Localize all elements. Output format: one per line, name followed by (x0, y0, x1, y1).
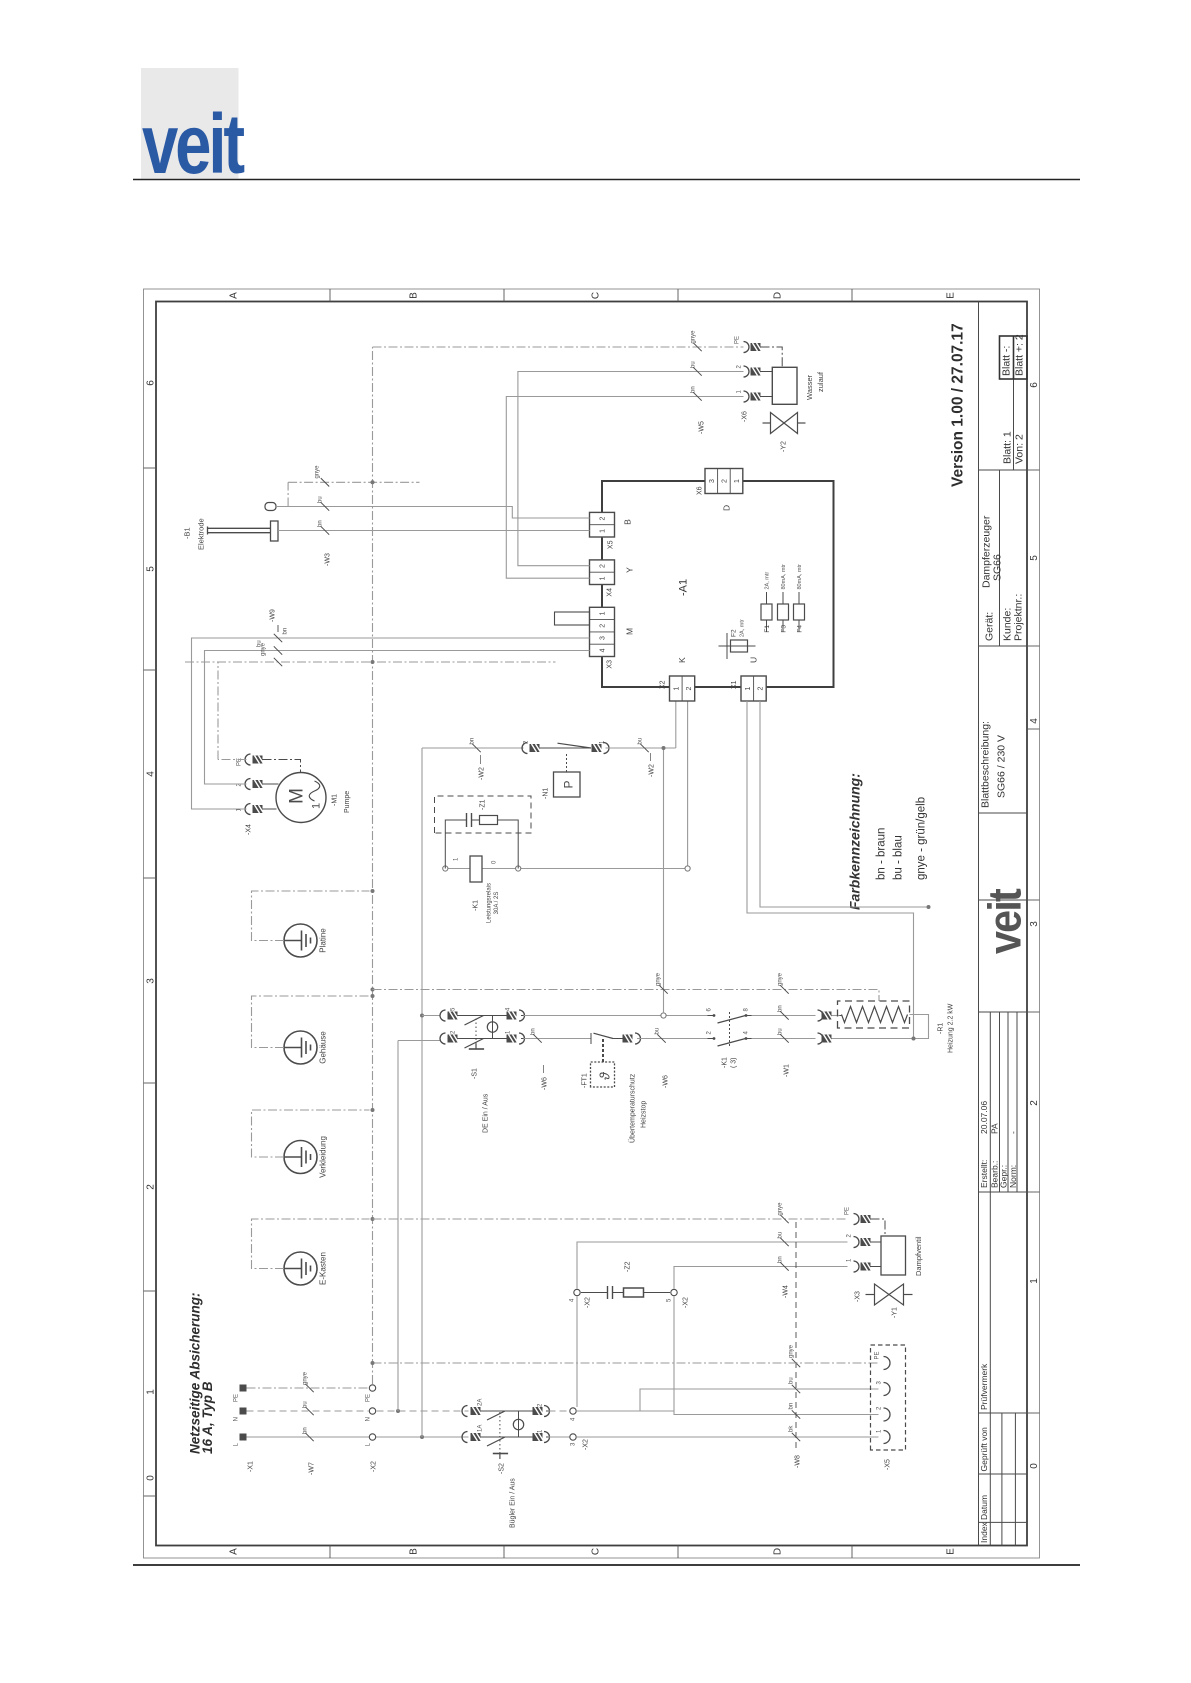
svg-text:1: 1 (146, 1389, 157, 1395)
svg-text:1: 1 (1029, 1278, 1040, 1284)
svg-text:1: 1 (734, 479, 741, 483)
socket X5 (871, 1345, 906, 1450)
svg-text:PE: PE (234, 1394, 240, 1402)
svg-text:bn: bn (303, 1427, 309, 1434)
svg-text:gnye: gnye (315, 465, 321, 479)
wires to A1 connectors X2 X1 (675, 701, 677, 748)
wire N branch to Z2 (576, 1297, 578, 1408)
wire L down to socket X5 pin1 (577, 1436, 879, 1438)
svg-text:30A / 2S: 30A / 2S (494, 892, 500, 915)
svg-text:2: 2 (600, 624, 607, 628)
svg-text:4: 4 (1029, 718, 1040, 724)
svg-text:6: 6 (146, 380, 157, 386)
svg-text:-K1: -K1 (722, 1057, 729, 1068)
svg-text:Dampfventil: Dampfventil (914, 1236, 923, 1276)
svg-text:2: 2 (600, 564, 607, 568)
cable W8 line and marks (795, 1219, 797, 1448)
svg-text:Blatt +: 2: Blatt +: 2 (1014, 334, 1026, 376)
veit company logo (141, 68, 244, 191)
svg-text:bn: bn (531, 1028, 537, 1035)
earth symbols E-Kasten Verkleidung Gehaeuse Platine (284, 1252, 317, 1285)
svg-text:D: D (722, 505, 732, 511)
svg-text:2: 2 (686, 686, 693, 690)
cable W6 mark (524, 1038, 592, 1040)
svg-text:bk: bk (789, 1425, 795, 1432)
svg-text:PE: PE (875, 1351, 881, 1359)
svg-text:Y: Y (625, 567, 635, 573)
svg-text:Version 1.00 / 27.07.17: Version 1.00 / 27.07.17 (950, 323, 967, 487)
electrode small probe (265, 503, 276, 511)
branch L to heater line (420, 1435, 424, 1439)
svg-text:U: U (749, 657, 759, 663)
switch S1 DE Ein/Aus (440, 1033, 446, 1044)
svg-text:E: E (946, 1548, 957, 1555)
switch S2 Buegler Ein/Aus (462, 1432, 468, 1443)
svg-text:1: 1 (600, 611, 607, 615)
svg-text:zulauf: zulauf (816, 371, 825, 392)
svg-text:X3: X3 (607, 660, 614, 669)
cable W5 marks (693, 392, 701, 400)
svg-text:bu - blau: bu - blau (893, 835, 905, 880)
svg-text:-X2: -X2 (585, 1297, 592, 1308)
svg-text:-W7: -W7 (309, 1462, 316, 1475)
Netzseitige Absicherung heading (188, 1292, 216, 1454)
svg-text:X4: X4 (607, 588, 614, 597)
svg-text:SG66 / 230 V: SG66 / 230 V (996, 735, 1008, 798)
svg-text:-Y2: -Y2 (781, 441, 788, 452)
title block (979, 302, 1028, 1546)
svg-text:bn: bn (778, 1005, 784, 1012)
svg-text:1A: 1A (478, 1425, 484, 1432)
PE rail (372, 347, 374, 1384)
svg-text:-W5: -W5 (699, 421, 706, 434)
connector X4 Y (590, 560, 615, 585)
svg-text:bn: bn (778, 1256, 784, 1263)
svg-text:-B1: -B1 (183, 527, 192, 539)
svg-text:gnye - grün/gelb: gnye - grün/gelb (916, 797, 928, 880)
svg-text:bu: bu (691, 361, 697, 368)
plug X6 water valve (744, 391, 750, 402)
X2 terminal 4b (574, 1289, 580, 1295)
svg-text:Von: 2: Von: 2 (1014, 434, 1026, 464)
wires S2 to X2 terminals 3 4 (549, 1436, 570, 1438)
svg-text:3: 3 (709, 479, 716, 483)
wire Z2 top to valve X3 pin2 (577, 1242, 848, 1289)
svg-text:K: K (677, 657, 687, 663)
cable W7 marks (305, 1433, 313, 1441)
svg-text:Prüfvermerk: Prüfvermerk (979, 1363, 989, 1410)
svg-text:-Z2: -Z2 (625, 1261, 632, 1272)
svg-text:1: 1 (311, 803, 323, 809)
wire N jog to X5 pin3 (577, 1410, 674, 1412)
svg-text:0: 0 (146, 1475, 157, 1481)
svg-text:-X3: -X3 (855, 1291, 862, 1302)
svg-text:-S2: -S2 (499, 1463, 506, 1474)
svg-text:gnye: gnye (303, 1371, 309, 1385)
wires K1 to heater R1 (752, 1015, 816, 1017)
svg-text:Farbkennzeichnung:: Farbkennzeichnung: (847, 773, 863, 910)
PE drop to valve plug X3 (373, 1218, 848, 1220)
svg-text:1: 1 (600, 576, 607, 580)
svg-text:A: A (229, 1548, 240, 1555)
svg-text:-X6: -X6 (742, 411, 749, 422)
svg-text:-X4: -X4 (246, 824, 253, 835)
svg-text:-X2: -X2 (683, 1297, 690, 1308)
svg-text:2: 2 (1029, 1100, 1040, 1106)
svg-text:6: 6 (1029, 382, 1040, 388)
top horizontal rule (133, 179, 1080, 181)
X2 terminal 5 (671, 1289, 677, 1295)
svg-text:Datum: Datum (979, 1495, 989, 1520)
svg-text:2A: 2A (478, 1399, 484, 1406)
svg-text:2A, mtr: 2A, mtr (765, 572, 771, 590)
svg-text:( 3): ( 3) (731, 1058, 738, 1069)
svg-text:gnye: gnye (691, 330, 697, 344)
wires X1 U to heater measuring (747, 701, 914, 1039)
svg-text:F2: F2 (731, 629, 738, 637)
svg-text:B: B (623, 519, 633, 525)
connector X1 U (741, 676, 766, 701)
svg-text:-X2: -X2 (371, 1461, 378, 1472)
svg-text:SG66: SG66 (992, 554, 1004, 581)
svg-text:-X5: -X5 (885, 1459, 892, 1470)
svg-text:4: 4 (146, 771, 157, 777)
drawing frame inner border (156, 302, 1027, 1546)
snubber Z1 (445, 820, 466, 869)
svg-text:-M1: -M1 (332, 794, 339, 806)
svg-text:bu: bu (303, 1401, 309, 1408)
svg-text:2: 2 (721, 479, 728, 483)
mains input wires L N PE (247, 1436, 469, 1438)
svg-text:3: 3 (600, 636, 607, 640)
svg-text:Blattbeschreibung:: Blattbeschreibung: (980, 721, 992, 808)
pump motor M1 (276, 773, 326, 823)
svg-text:-A1: -A1 (678, 579, 690, 596)
heating element R1 (838, 1001, 910, 1028)
svg-text:veit: veit (142, 97, 244, 191)
svg-text:2A, mtr: 2A, mtr (740, 619, 746, 637)
svg-text:Bügler Ein / Aus: Bügler Ein / Aus (510, 1478, 517, 1528)
electrode wires to X5 B (278, 530, 590, 532)
water inlet box (772, 367, 797, 404)
svg-text:ϑ: ϑ (597, 1071, 613, 1080)
jumper above X3 pin1 (555, 612, 590, 625)
svg-text:Blatt: 1: Blatt: 1 (1002, 431, 1014, 464)
drawing frame outer border (144, 289, 1040, 1558)
svg-text:1: 1 (600, 529, 607, 533)
terminal X1 pins (240, 1434, 247, 1441)
svg-text:-S1: -S1 (472, 1068, 479, 1079)
svg-text:Platine: Platine (319, 928, 328, 953)
svg-text:Verkleidung: Verkleidung (319, 1136, 328, 1178)
svg-text:bu: bu (778, 1028, 784, 1035)
fuses F1 F3 F4 (766, 592, 768, 632)
wire S1 to K1 contact (524, 1015, 708, 1017)
controller board A1 (602, 481, 834, 687)
relay coil K1 (445, 868, 470, 870)
svg-text:gnye: gnye (778, 972, 784, 986)
svg-text:PE: PE (735, 336, 741, 344)
svg-text:2: 2 (600, 517, 607, 521)
valve symbol Y1 (866, 1284, 913, 1305)
svg-text:F3: F3 (781, 625, 788, 633)
svg-text:-Y1: -Y1 (892, 1307, 899, 1318)
svg-text:N: N (366, 1417, 372, 1421)
svg-text:N: N (234, 1417, 240, 1421)
svg-text:C: C (591, 292, 602, 299)
svg-text:PE: PE (845, 1207, 851, 1215)
svg-text:Leistungsrelais: Leistungsrelais (487, 883, 493, 923)
svg-text:Heizung 2.2 kW: Heizung 2.2 kW (948, 1003, 955, 1053)
svg-text:DE Ein / Aus: DE Ein / Aus (483, 1093, 490, 1133)
svg-text:Norm:: Norm: (1008, 1165, 1018, 1188)
svg-text:bu: bu (318, 496, 324, 503)
svg-text:-X1: -X1 (248, 1461, 255, 1472)
svg-text:-R1: -R1 (938, 1023, 945, 1034)
terminal X2 L N PE circles (369, 1434, 375, 1440)
svg-text:A: A (229, 292, 240, 299)
svg-text:3: 3 (1029, 921, 1040, 927)
pump PE wire (218, 759, 247, 761)
svg-text:Erstellt:: Erstellt: (979, 1160, 989, 1188)
wires X2 to S2 (377, 1436, 469, 1438)
svg-text:16 A, Typ B: 16 A, Typ B (200, 1381, 215, 1454)
water supply wires from X4 Y (506, 397, 743, 579)
svg-text:20.07.06: 20.07.06 (979, 1101, 989, 1134)
svg-text:-W4: -W4 (783, 1285, 790, 1298)
PE rail down leg (373, 346, 744, 348)
svg-text:X1: X1 (731, 680, 738, 689)
svg-text:bu: bu (638, 738, 644, 745)
svg-text:Gerät:: Gerät: (984, 612, 996, 641)
svg-text:-K1: -K1 (473, 900, 480, 911)
svg-text:bn: bn (789, 1403, 795, 1410)
svg-text:1: 1 (673, 686, 680, 690)
svg-text:M: M (287, 788, 308, 804)
svg-text:3: 3 (146, 978, 157, 984)
steam valve Y1 box (881, 1236, 906, 1275)
S2 lamp (518, 1411, 520, 1437)
svg-text:bn - braun: bn - braun (876, 828, 888, 880)
svg-text:P: P (562, 780, 576, 788)
svg-text:D: D (773, 1548, 784, 1555)
S2 mechanical link and handle (499, 1412, 501, 1454)
svg-text:bn: bn (283, 628, 289, 635)
svg-text:gnye: gnye (789, 1344, 795, 1358)
svg-text:B: B (409, 292, 420, 299)
svg-text:5: 5 (146, 566, 157, 572)
svg-text:bn: bn (470, 738, 476, 745)
svg-text:Geprüft von: Geprüft von (979, 1427, 989, 1472)
connector X2 K (670, 676, 695, 701)
water valve Y2 (763, 413, 806, 434)
svg-text:veit: veit (979, 888, 1031, 954)
svg-text:F1: F1 (764, 625, 771, 633)
svg-text:0: 0 (1029, 1463, 1040, 1469)
svg-text:-W3: -W3 (325, 553, 332, 566)
svg-text:bu: bu (257, 640, 263, 647)
svg-text:Pumpe: Pumpe (344, 791, 351, 813)
svg-text:-W6: -W6 (542, 1077, 549, 1090)
svg-text:80mA, mtr: 80mA, mtr (797, 564, 803, 590)
svg-text:-W6: -W6 (663, 1075, 670, 1088)
svg-text:Blatt -:: Blatt -: (1001, 346, 1013, 376)
svg-text:-W2: -W2 (479, 767, 486, 780)
svg-text:-W9: -W9 (270, 609, 277, 622)
svg-text:bn: bn (318, 520, 324, 527)
svg-text:bu: bu (778, 1232, 784, 1239)
bottom horizontal rule (133, 1564, 1080, 1566)
svg-text:Gehäuse: Gehäuse (319, 1031, 328, 1064)
svg-text:-W8: -W8 (795, 1455, 802, 1468)
svg-text:-Z1: -Z1 (480, 799, 487, 810)
svg-text:gnye: gnye (778, 1202, 784, 1216)
svg-text:-: - (1008, 1131, 1018, 1134)
svg-text:Heizstop: Heizstop (641, 1101, 648, 1128)
plug X3 steam valve (854, 1261, 860, 1272)
svg-text:B: B (409, 1548, 420, 1555)
svg-text:80mA, mtr: 80mA, mtr (781, 564, 787, 590)
pump wires to A1 X3 (192, 638, 590, 809)
svg-text:-N1: -N1 (543, 788, 550, 799)
PE gnye to heater (371, 988, 375, 992)
svg-text:-FT1: -FT1 (582, 1073, 589, 1088)
electrode B1 (208, 532, 271, 534)
svg-text:Wasser: Wasser (805, 374, 814, 400)
svg-text:Index: Index (979, 1521, 989, 1543)
connector X3 M (590, 607, 615, 656)
svg-text:E: E (946, 292, 957, 299)
svg-text:5: 5 (1029, 555, 1040, 561)
svg-text:-W1: -W1 (784, 1064, 791, 1077)
Farbkennzeichnung legend (847, 773, 928, 910)
wires to S1 (420, 1014, 424, 1018)
branch N to S1 line (396, 1409, 400, 1413)
frame column ticks and numbers (144, 289, 1040, 1558)
svg-text:Elektrode: Elektrode (197, 518, 206, 550)
cable W9 marks (274, 658, 282, 666)
svg-text:C: C (591, 1548, 602, 1555)
filter Z2 (581, 1292, 608, 1294)
svg-text:bn: bn (691, 386, 697, 393)
svg-text:E-Kasten: E-Kasten (319, 1252, 328, 1285)
svg-text:-W2: -W2 (649, 764, 656, 777)
contactor K1 contacts (708, 1038, 714, 1040)
svg-text:X5: X5 (608, 540, 615, 549)
svg-text:4: 4 (600, 648, 607, 652)
svg-text:F4: F4 (797, 625, 804, 633)
svg-text:bu: bu (789, 1377, 795, 1384)
connector X5 B (590, 512, 615, 537)
svg-text:PA: PA (990, 1123, 1000, 1134)
svg-text:Projektnr.:: Projektnr.: (1013, 594, 1025, 641)
svg-text:gnye: gnye (656, 972, 662, 986)
svg-text:bu: bu (655, 1028, 661, 1035)
pressure switch N1 circuit (422, 747, 524, 749)
svg-text:D: D (773, 292, 784, 299)
plug X4 pump (245, 804, 251, 815)
svg-text:X6: X6 (697, 486, 704, 495)
cable W3 marks (321, 526, 329, 534)
N1 P box (554, 772, 581, 797)
svg-text:Übertemperaturschutz: Übertemperaturschutz (629, 1073, 637, 1143)
svg-text:1: 1 (745, 686, 752, 690)
svg-text:-X2: -X2 (583, 1439, 590, 1450)
svg-text:Gepr.:: Gepr.: (999, 1165, 1009, 1188)
wire Z2 out to X5 pin2 and to valve X3 pin1 (674, 1297, 879, 1415)
cable W4 marks (780, 1262, 788, 1270)
svg-text:2: 2 (146, 1184, 157, 1190)
connector X6 D (705, 469, 743, 494)
svg-text:X2: X2 (660, 680, 667, 689)
svg-text:M: M (625, 628, 635, 635)
thermal cutout FT1 (594, 1033, 614, 1038)
svg-text:2: 2 (757, 686, 764, 690)
PE branch to socket X5 (373, 1362, 879, 1364)
svg-text:PE: PE (366, 1394, 372, 1402)
fuse F2 (719, 645, 756, 647)
